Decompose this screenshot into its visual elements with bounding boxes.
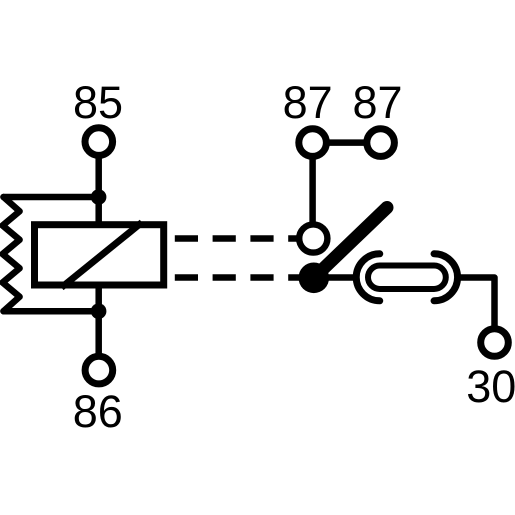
wire: 87 to 87 bridge [313, 139, 381, 146]
svg-text:85: 85 [73, 77, 123, 128]
common contact dot (pivot) [299, 263, 330, 294]
wire: top rail from resistor to junction [4, 194, 99, 201]
terminal 86 circle [85, 356, 113, 384]
svg-text:87: 87 [352, 77, 402, 128]
wire: terminal 85 down through junction into coil [95, 142, 102, 228]
resistor R1 (zigzag parallel to coil) [3, 197, 20, 311]
terminal 30 circle [481, 329, 509, 357]
contact capsule left arc [356, 254, 380, 301]
terminal 87 circle (right) [367, 129, 395, 157]
contact capsule stadium [368, 266, 446, 290]
mechanical linkage dashed line upper [175, 235, 313, 242]
switch armature [314, 208, 387, 278]
terminal 87 circle (left) [299, 129, 327, 157]
wire: coil bottom through junction to terminal 86 [95, 282, 102, 370]
wire: bottom rail from resistor to junction [4, 308, 99, 315]
contact capsule right arc [434, 254, 458, 301]
relay coil K1 (box) [35, 225, 164, 285]
wire: pivot to contact capsule [314, 274, 357, 281]
svg-text:87: 87 [283, 77, 333, 128]
node: junction top (85 / rail / coil) [91, 189, 107, 205]
node: junction bottom (86 / rail / coil) [91, 303, 107, 319]
wire: 87 down to NO contact [309, 143, 316, 239]
wire: capsule to terminal 30 [456, 278, 495, 330]
svg-text:30: 30 [466, 361, 515, 412]
relay coil K1 diagonal [61, 222, 141, 287]
svg-text:86: 86 [73, 386, 123, 437]
mechanical linkage dashed line lower [175, 274, 313, 281]
NO contact circle [299, 224, 327, 252]
terminal 85 circle [85, 128, 113, 156]
